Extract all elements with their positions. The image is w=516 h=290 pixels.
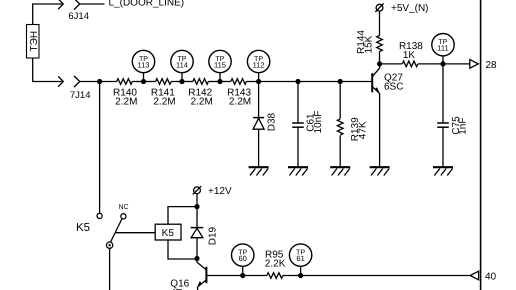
svg-text:112: 112 [253,61,265,70]
label K5 switch [76,222,90,234]
svg-text:+5V_(N): +5V_(N) [391,3,429,14]
junction TP111 node [440,61,445,66]
label pin 40 [485,271,497,282]
wire down to D38 [258,82,260,118]
diode D38 [253,118,264,130]
ground of R139 [330,167,350,175]
test point TP112 [247,50,269,72]
wire node down to switch pole [99,82,101,214]
transistor Q16 collector [197,259,206,270]
wire stub TP61 [300,266,302,275]
wire stub TP60 [242,266,244,275]
svg-text:111: 111 [437,44,448,53]
resistor R95 [267,273,283,279]
label +5V_(N) [391,3,429,14]
wire R138 to TP111 node [418,63,443,65]
mech link lever to coil [115,232,155,234]
label C61 10nF [306,111,324,134]
label Q27 6SC [384,73,403,93]
diode D19 [191,228,204,238]
transistor Q27 emitter [373,87,380,166]
wire to R142 [182,81,193,83]
wire to pin 40 [301,275,471,277]
wire down to C61 [297,82,299,124]
wire R139 to ground [339,136,341,167]
junction Q27 collector node [377,61,382,66]
svg-text:47K: 47K [358,121,369,139]
wire R140 to TP113 node [132,81,143,83]
ground of C75 [433,167,453,175]
label R138 1K [399,41,423,61]
wire R141 to TP114 node [171,81,182,83]
svg-text:2.2M: 2.2M [191,96,213,107]
switch NC contact [121,214,126,219]
svg-text:6SC: 6SC [384,82,403,93]
svg-text:2.2M: 2.2M [229,96,251,107]
wire TEN top to 6J14 arrow [33,4,62,25]
wire D19 to Q16 node [196,238,198,259]
ground of D38 [249,167,269,175]
wire +12V down [196,194,198,207]
svg-text:2.2M: 2.2M [115,96,137,107]
label R139 47K [350,117,369,141]
wire Q16 base line [206,275,242,277]
svg-text:2.2K: 2.2K [265,259,286,270]
junction C61 top [295,79,300,84]
test point TP111 [432,34,454,56]
svg-text:+12V: +12V [208,186,232,197]
svg-text:10nF: 10nF [313,111,324,134]
svg-text:1nF: 1nF [458,118,469,135]
junction TP115 [217,79,222,84]
arrowhead to 6J14 [58,0,63,9]
svg-text:60: 60 [239,254,247,263]
wire to pin 28 [443,63,470,65]
Q16 emitter arrowhead [197,281,202,287]
resistor R143 [231,79,247,85]
heater element box TEN [27,25,40,59]
svg-text:28: 28 [486,60,498,71]
ground of Q27 emitter [370,167,390,175]
label C75 1nF [451,116,469,135]
bus line right edge [480,0,482,290]
label D19 [207,226,218,245]
wire down to R139 [339,82,341,119]
wire stub TP113 [143,73,145,82]
wire coil top bracket [168,207,197,225]
switch lever K5 [110,219,122,243]
wire stub TP114 [181,73,183,82]
transistor Q27 base bar [371,73,373,92]
junction Q16 collector node [194,256,199,261]
transistor Q16 emitter [198,280,206,290]
resistor R140 [117,79,133,85]
connector pin 7J14 chevron [74,76,80,87]
wire stub TP111 [442,56,444,64]
wire TEN bottom to 7J14 arrow [33,58,62,82]
resistor R142 [193,79,209,85]
wire R142 to TP115 node [208,81,220,83]
svg-text:2.2M: 2.2M [153,96,175,107]
wire R144 to collector node [379,52,381,64]
label R144 15K [356,30,374,54]
wire 7J14 to node [80,81,100,83]
resistor R144 [377,36,383,52]
capacitor C75 [437,123,449,127]
connector pin 6J14 chevron [74,0,80,10]
junction TP112 [256,79,261,84]
svg-text:K5: K5 [76,222,90,234]
wire to R95 [243,275,267,277]
junction node at 7J14 line [97,79,102,84]
test point TP113 [132,50,154,72]
svg-text:7J14: 7J14 [70,90,91,101]
junction TP60 node [240,273,245,278]
capacitor C61 [292,123,304,127]
wire 6J14 to net label [80,3,105,5]
switch pivot [106,242,112,248]
Q27 emitter arrowhead [375,87,380,94]
transistor Q27 collector [373,64,380,76]
power symbol +5V_(N) [375,4,383,12]
label R140 2.2M [113,88,137,108]
test point TP115 [209,50,231,72]
label pin 28 [486,60,498,71]
svg-text:K5: K5 [162,228,175,239]
wire pivot down to edge [109,248,111,290]
svg-text:114: 114 [176,61,188,70]
label 7J14 [70,90,91,101]
wire node to R140 [100,81,117,83]
resistor R138 [402,61,418,67]
power symbol +12V [193,186,201,194]
junction +12V node [194,204,199,209]
label +12V [208,186,232,197]
wire +5V to R144 [379,11,381,35]
svg-text:NC: NC [118,204,128,211]
wire stub TP112 [258,73,260,82]
arrowhead to 7J14 [58,76,63,86]
label R143 2.2M [227,88,251,108]
wire to R141 [144,81,156,83]
label 6J14 [68,11,89,22]
transistor Q16 base bar [205,267,207,284]
label R95 2.2K [265,249,286,269]
wire R143 to TP112 node [246,81,258,83]
svg-text:6J14: 6J14 [68,11,89,22]
pin arrow 40 [470,271,478,280]
svg-text:D19: D19 [207,226,218,245]
svg-text:1K: 1K [403,50,416,61]
wire C61 to ground [297,127,299,166]
svg-text:61: 61 [296,254,304,263]
test point TP61 [289,244,311,266]
wire node to R138 [380,63,403,65]
junction TP61 node [298,273,303,278]
svg-text:115: 115 [214,61,226,70]
wire R95 to TP61 node [283,275,301,277]
wire D38 to ground [258,129,260,166]
label R141 2.2M [151,88,176,108]
relay coil K5 box [155,224,181,240]
wire node to C75 [442,64,444,123]
resistor R139 [337,119,343,135]
net label L_(DOOR_LINE) [109,0,185,8]
wire TP112 node to Q27 base [259,81,372,83]
switch common open contact [97,213,102,218]
test point TP114 [171,50,193,72]
resistor R141 [156,79,172,85]
label R142 2.2M [188,88,213,108]
junction TP113 [141,79,146,84]
wire coil bottom bracket [168,240,197,259]
junction TP114 [179,79,184,84]
wire stub TP115 [219,73,221,82]
svg-text:40: 40 [485,271,497,282]
svg-text:ТЭН: ТЭН [29,31,40,52]
label NC [118,204,128,211]
svg-text:D38: D38 [267,112,278,131]
junction R139 top [338,79,343,84]
svg-text:L_(DOOR_LINE): L_(DOOR_LINE) [109,0,185,8]
label Q16 [170,279,189,290]
wire C75 to ground [442,127,444,166]
wire down to D19 [196,207,198,228]
pin arrow 28 [470,60,479,69]
label D38 [267,112,278,131]
test point TP60 [232,244,254,266]
svg-text:15K: 15K [363,35,374,53]
wire to R143 [220,81,231,83]
ground of C61 [288,167,308,175]
svg-text:113: 113 [138,61,150,70]
